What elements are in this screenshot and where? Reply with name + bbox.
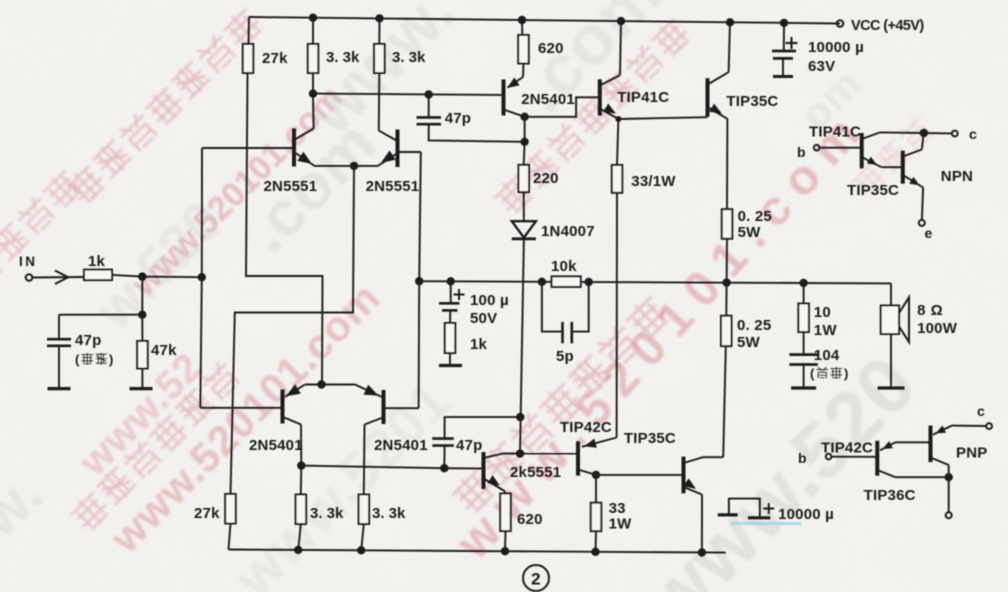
svg-text:TIP35C: TIP35C: [624, 430, 676, 447]
svg-text:2N5401: 2N5401: [374, 437, 428, 454]
svg-text:3. 3k: 3. 3k: [310, 505, 344, 522]
svg-text:5p: 5p: [556, 348, 574, 365]
svg-text:1k: 1k: [470, 336, 488, 353]
svg-text:620: 620: [517, 511, 543, 528]
svg-text:1k: 1k: [88, 253, 106, 270]
svg-text:10k: 10k: [551, 258, 577, 275]
svg-text:c: c: [969, 126, 977, 142]
svg-text:TIP35C: TIP35C: [726, 93, 778, 110]
svg-text:2: 2: [531, 570, 541, 589]
svg-text:27k: 27k: [262, 50, 288, 67]
svg-text:50V: 50V: [470, 310, 497, 327]
svg-text:1W: 1W: [609, 516, 633, 533]
svg-text:PNP: PNP: [956, 445, 987, 462]
svg-text:47p: 47p: [75, 332, 101, 349]
svg-text:TIP42C: TIP42C: [560, 419, 612, 436]
svg-text:c: c: [977, 403, 985, 419]
svg-text:TIP42C: TIP42C: [821, 440, 873, 457]
svg-text:620: 620: [538, 40, 564, 57]
svg-text:e: e: [925, 225, 933, 241]
svg-text:5W: 5W: [737, 334, 761, 351]
svg-text:1N4007: 1N4007: [541, 223, 595, 240]
svg-text:33: 33: [609, 500, 626, 517]
svg-text:27k: 27k: [194, 505, 220, 522]
svg-text:0. 25: 0. 25: [738, 208, 772, 225]
svg-text:2N5401: 2N5401: [521, 91, 575, 108]
svg-text:63V: 63V: [808, 58, 835, 75]
svg-text:1W: 1W: [814, 322, 838, 339]
svg-text:47p: 47p: [456, 437, 482, 454]
svg-text:10000 µ: 10000 µ: [778, 506, 834, 523]
svg-text:(: (: [75, 352, 80, 367]
svg-text:TIP41C: TIP41C: [617, 89, 669, 106]
svg-text:NPN: NPN: [941, 168, 973, 185]
svg-text:): ): [109, 352, 113, 367]
svg-text:3. 3k: 3. 3k: [392, 49, 426, 66]
svg-text:33/1W: 33/1W: [631, 173, 676, 190]
svg-text:104: 104: [814, 347, 840, 364]
svg-text:VCC (+45V): VCC (+45V): [851, 18, 924, 34]
svg-text:3. 3k: 3. 3k: [372, 505, 406, 522]
svg-text:0. 25: 0. 25: [737, 317, 771, 334]
svg-text:b: b: [798, 450, 807, 466]
svg-text:TIP35C: TIP35C: [847, 182, 899, 199]
svg-text:2N5551: 2N5551: [264, 178, 318, 195]
svg-text:b: b: [797, 144, 806, 160]
svg-text:2N5551: 2N5551: [366, 178, 420, 195]
svg-text:10000 µ: 10000 µ: [808, 39, 864, 56]
svg-text:100W: 100W: [917, 320, 958, 337]
svg-text:8 Ω: 8 Ω: [917, 302, 943, 319]
svg-text:100 µ: 100 µ: [470, 292, 509, 309]
svg-text:TIP41C: TIP41C: [809, 124, 861, 141]
svg-text:5W: 5W: [738, 224, 762, 241]
svg-text:IN: IN: [19, 254, 38, 269]
svg-text:2k5551: 2k5551: [510, 464, 561, 481]
svg-text:TIP36C: TIP36C: [864, 487, 916, 504]
svg-text:2N5401: 2N5401: [249, 437, 303, 454]
svg-text:(: (: [810, 366, 815, 381]
svg-text:47p: 47p: [445, 110, 471, 127]
svg-text:220: 220: [533, 170, 559, 187]
svg-text:3. 3k: 3. 3k: [326, 49, 360, 66]
svg-text:10: 10: [814, 304, 831, 321]
svg-text:47k: 47k: [151, 342, 177, 359]
svg-text:): ): [844, 366, 848, 381]
